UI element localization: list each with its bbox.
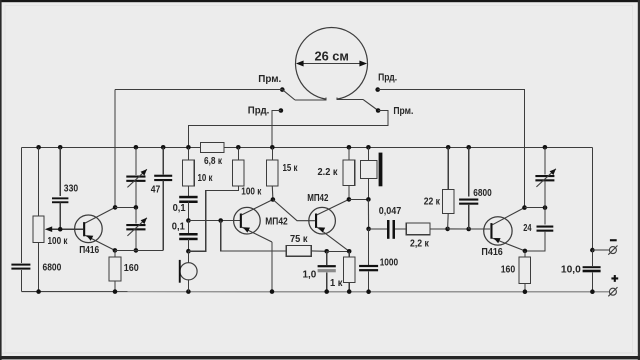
node 6800-2 top rail [466, 145, 471, 150]
label 1 к [330, 278, 343, 289]
resistor R 160 (VT1 emitter) [109, 250, 121, 291]
svg-text:6,8 к: 6,8 к [204, 156, 223, 167]
label Прд. right [378, 73, 397, 84]
node cap47 top rail [161, 145, 166, 150]
node VT1 emitter rail... mic ground [186, 289, 191, 294]
node base VT2 feedback tap [218, 218, 223, 223]
node cap330 top [58, 145, 63, 150]
svg-text:Прм.: Прм. [258, 74, 281, 85]
node pot bottom rail [36, 289, 41, 294]
node coupling / 1000 cap [366, 227, 371, 232]
node VT4 emitter [523, 249, 528, 254]
node mic top [186, 249, 191, 254]
node VT3 collector [347, 197, 352, 202]
wire VT2 emitter to ground [271, 242, 273, 292]
label 100 к (VT2) [241, 187, 262, 198]
node VT2 collector [271, 197, 276, 202]
border frame left [0, 0, 2, 360]
svg-text:Прм.: Прм. [393, 106, 413, 117]
node base wire VT2 / caps [186, 218, 191, 223]
label 10,0 [561, 264, 581, 275]
node 2.2к top rail [347, 145, 352, 150]
earphone BF1 [360, 147, 382, 199]
node VT2 emitter rail [270, 289, 275, 294]
terminal plus (socket) [608, 287, 617, 296]
svg-text:100 к: 100 к [241, 187, 262, 198]
wire emitter node to cap47 bottom [115, 249, 163, 251]
resistor R 75к (feedback) [286, 246, 326, 257]
node varcap3 bottom [543, 205, 548, 210]
label 24 [523, 223, 532, 234]
svg-text:0,1: 0,1 [173, 203, 186, 214]
wire mic node to 100к bias [188, 186, 238, 251]
label 6800 right [473, 188, 492, 199]
label 75 к [290, 234, 308, 245]
wire base VT2 [188, 220, 240, 222]
svg-text:26 см: 26 см [314, 49, 349, 64]
wire signal to 6800 node [448, 228, 469, 230]
label МП42 (VT3) [307, 193, 329, 204]
node varcap3 top rail [543, 145, 548, 150]
capacitor C 0,1 lower [179, 221, 197, 252]
transistor VT3 МП42 [309, 199, 349, 251]
label 160 (VT4) [501, 265, 516, 276]
node varcap2 bottom / emitter wire [134, 248, 139, 253]
node 100к-2 top rail [236, 145, 241, 150]
node cap330 base wire [58, 227, 63, 232]
capacitor C 1,0 (electrolytic) [318, 251, 336, 291]
wire phone column down [367, 199, 369, 229]
switch contact Прм. right [188, 108, 388, 147]
resistor R 160 (VT4) [519, 251, 531, 292]
wire base VT4 [469, 228, 491, 230]
node 6800-2 bottom [466, 227, 471, 232]
resistor R 2.2к (VT3 load) [343, 147, 355, 199]
node minus terminal tap [590, 248, 595, 253]
node cap 1,0 top [324, 249, 329, 254]
node phone bottom / collector net [366, 197, 371, 202]
svg-text:1000: 1000 [380, 258, 399, 269]
svg-text:47: 47 [151, 184, 161, 195]
node 10к top rail [186, 145, 191, 150]
svg-text:22 к: 22 к [424, 197, 441, 208]
resistor R 100к (VT2 bias) [233, 147, 245, 186]
switch contact Прм. left [115, 87, 285, 92]
transistor VT4 П416 [484, 208, 525, 251]
label Прд. left [248, 106, 270, 117]
switch contact Прд. right [375, 87, 524, 207]
label 6,8 к [204, 156, 223, 167]
transistor VT1 П416 [75, 207, 116, 250]
terminal minus (socket) [608, 246, 617, 255]
svg-text:15 к: 15 к [283, 163, 299, 174]
svg-text:0,1: 0,1 [172, 221, 185, 232]
node 160-2 bottom rail [523, 289, 528, 294]
trimmer capacitor C* lower [126, 207, 147, 250]
wire feedback tap to 75к [221, 221, 287, 251]
svg-text:П416: П416 [481, 247, 503, 258]
svg-text:1 к: 1 к [330, 278, 343, 289]
loop antenna L1 (26 cm) [295, 28, 368, 100]
wire left supply branch [21, 147, 23, 291]
wire top supply rail [22, 146, 593, 148]
label МП42 (VT2) [265, 217, 288, 228]
node VT4 collector [522, 205, 527, 210]
resistor R 2,2к (coupling) [406, 223, 447, 235]
label 15 к [283, 163, 299, 174]
svg-text:100 к: 100 к [48, 236, 69, 247]
node 160 bottom rail [113, 289, 118, 294]
label 0,047 [379, 206, 402, 217]
capacitor C 1000 [359, 229, 378, 292]
label 0,1 upper [173, 203, 186, 214]
label minus sign [610, 239, 617, 241]
resistor R 10к [183, 147, 195, 196]
border frame bottom [0, 353, 640, 360]
wire 75к node to emitter node [327, 250, 350, 252]
node VT1 collector [113, 205, 118, 210]
svg-text:2.2 к: 2.2 к [318, 167, 339, 178]
svg-text:Прд.: Прд. [248, 106, 270, 117]
resistor R 1к (VT3 emitter) [343, 251, 355, 291]
svg-text:2,2 к: 2,2 к [410, 239, 430, 250]
svg-text:1,0: 1,0 [303, 270, 317, 281]
wire VT2 collector to VT3 base [273, 200, 315, 221]
wire bottom ground rail [22, 291, 610, 293]
border frame top [0, 0, 640, 2]
label Прм. right [393, 106, 413, 117]
switch blade right (from loop) [363, 99, 378, 110]
node cap 1000 bottom rail [366, 289, 371, 294]
label 6800 left [43, 263, 62, 274]
svg-text:МП42: МП42 [307, 193, 329, 204]
svg-text:6800: 6800 [473, 188, 492, 199]
svg-text:0,047: 0,047 [379, 206, 402, 217]
wire right supply branch [591, 147, 593, 250]
potentiometer R 100к [33, 147, 44, 291]
svg-text:10 к: 10 к [198, 173, 214, 184]
resistor R 22к [442, 147, 454, 229]
capacitor C 47 [154, 147, 172, 250]
label П416 (VT1) [79, 245, 99, 256]
capacitor C 6800 (left) [11, 264, 30, 270]
label 1000 [380, 258, 399, 269]
node 1к bottom rail [347, 289, 352, 294]
label 100 к (pot) [48, 236, 69, 247]
capacitor C 24 [525, 208, 553, 251]
label 330 [64, 184, 79, 195]
label plus sign [611, 275, 618, 282]
label 0,1 lower [172, 221, 185, 232]
label 160 (VT1) [124, 263, 139, 274]
wire Прм-left down to collector node VT1 [114, 90, 116, 208]
label 2.2 к [318, 167, 339, 178]
node cap 1,0 bottom rail [324, 289, 329, 294]
switch blade left (to loop) [282, 90, 295, 100]
node 22к / signal [445, 227, 450, 232]
transistor VT2 МП42 [234, 200, 273, 243]
capacitor C 6800 (right) [459, 147, 478, 229]
label Прм. left [258, 74, 281, 85]
svg-text:МП42: МП42 [265, 217, 288, 228]
node 22к top rail [446, 145, 451, 150]
border frame right [638, 0, 640, 360]
node VT3 emitter / 1к [347, 249, 352, 254]
svg-text:10,0: 10,0 [561, 264, 581, 275]
svg-text:Прд.: Прд. [378, 73, 397, 84]
label 2,2 к [410, 239, 430, 250]
microphone BM1 [179, 251, 197, 291]
node varcap1 top rail [134, 145, 139, 150]
svg-text:6800: 6800 [43, 263, 62, 274]
capacitor C 0,047 [369, 220, 407, 239]
capacitor C 330 [52, 147, 68, 229]
capacitor C 0,1 upper [179, 196, 197, 221]
node VT1 emitter [113, 248, 118, 253]
label 22 к [424, 197, 441, 208]
node varcap mid [134, 205, 139, 210]
trimmer capacitor C* upper [126, 147, 147, 207]
label 1,0 [303, 270, 317, 281]
dimension arrow 26 см [296, 61, 367, 67]
capacitor C 10,0 (electrolytic) [583, 250, 601, 292]
label 47 [151, 184, 161, 195]
svg-text:24: 24 [523, 223, 532, 234]
svg-text:75 к: 75 к [290, 234, 308, 245]
svg-text:330: 330 [64, 184, 79, 195]
svg-text:160: 160 [501, 265, 516, 276]
wire collector node to varcap mid [115, 206, 136, 208]
node cap 10,0 bottom rail [590, 289, 595, 294]
node top rail / pot [36, 145, 41, 150]
label 26 см [314, 49, 349, 64]
node 15к top rail / Прд [270, 145, 275, 150]
label П416 (VT4) [481, 247, 503, 258]
svg-text:П416: П416 [79, 245, 99, 256]
switch contact Прд. left [272, 108, 283, 147]
pot wiper arrow [45, 226, 83, 232]
wire VT3 collector to phone column [349, 198, 369, 200]
node phone top rail [366, 145, 371, 150]
resistor R 6,8к [201, 142, 225, 152]
trimmer capacitor C* (tank) [535, 147, 556, 207]
label 10 к [198, 173, 214, 184]
wire collector node to varcap3 [525, 207, 546, 209]
wire to minus terminal [592, 249, 609, 251]
svg-text:160: 160 [124, 263, 139, 274]
resistor R 15к [267, 147, 279, 199]
